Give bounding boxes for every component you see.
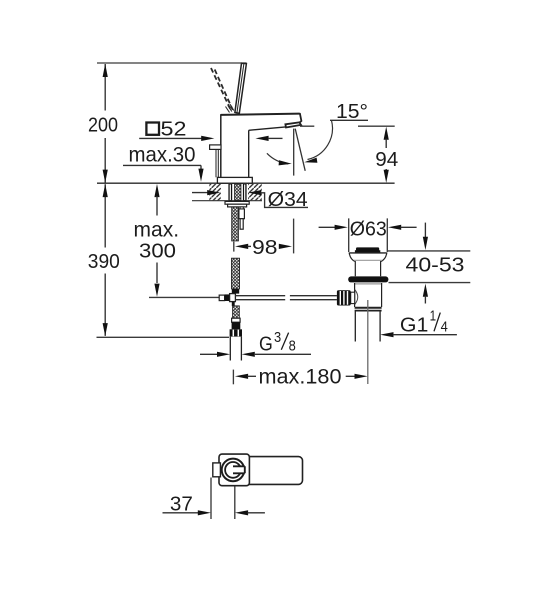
dim G1 1/4 arrow left-pointing — [380, 332, 393, 337]
label square52 symbol — [146, 123, 159, 135]
logo inner ring — [225, 462, 241, 478]
logo outer ring — [222, 459, 245, 482]
dim G1 1/4 leader — [393, 334, 457, 336]
rod clamp left piece — [219, 295, 224, 301]
pop-up plug cap — [356, 247, 379, 250]
label 15deg underline — [330, 119, 368, 121]
dim max.300 upper shaft — [156, 196, 158, 216]
dim 390 bottom extension line — [97, 336, 230, 338]
max.300 bottom extension / pop-up rod hairline — [149, 296, 219, 298]
dim 40-53 top extension — [388, 250, 471, 252]
dim max.180 line right — [346, 375, 355, 377]
dim G3/8 arrow right-pointing — [217, 352, 230, 357]
rod clamp screw block — [225, 294, 230, 301]
waste knurled knob — [337, 290, 351, 305]
15deg arc left arrowhead — [279, 160, 292, 165]
svg-text:94: 94 — [375, 148, 398, 171]
faucet body right edge — [248, 130, 250, 177]
dim 98 arrow left-pointing — [235, 244, 248, 249]
dim diam34 left tail — [192, 192, 210, 194]
washer below deck — [225, 201, 249, 204]
top reference line — [97, 62, 247, 64]
waste tailpipe — [355, 312, 380, 342]
15deg arc right arrowhead — [304, 158, 317, 163]
bottom view spout outline — [244, 457, 303, 485]
15deg arc left — [267, 153, 288, 164]
dim G3/8 right tail — [254, 353, 311, 355]
svg-text:200: 200 — [88, 113, 118, 136]
mounting bolt right — [243, 184, 247, 200]
dim diam63 right tail — [401, 226, 417, 228]
svg-text:300: 300 — [139, 239, 176, 262]
waste flange sides — [349, 253, 387, 276]
dim 98 arrow right-pointing — [279, 244, 292, 249]
svg-text:G1: G1 — [400, 313, 429, 336]
svg-text:max.180: max.180 — [259, 364, 342, 388]
water stream straight line — [293, 129, 295, 176]
dim 98 line left — [248, 245, 252, 247]
lever dashed alternative position — [211, 68, 233, 110]
pop-up rod upper piece cap — [240, 207, 243, 209]
pull-rod knob behind faucet — [210, 145, 221, 150]
dim 94 top extension segments — [300, 125, 395, 127]
pop-up rod upper piece — [239, 209, 245, 219]
tube centerline stub — [232, 370, 234, 385]
label max.30 arrow down — [198, 169, 203, 182]
svg-text:15°: 15° — [336, 100, 368, 123]
supply hose through deck — [235, 184, 241, 200]
dim 37 tail right — [248, 512, 265, 514]
bottom view body square — [219, 454, 249, 486]
spout underside — [249, 127, 286, 130]
dim 40-53 lower shaft — [424, 296, 426, 304]
svg-text:390: 390 — [88, 250, 120, 273]
dim 37 extension lines — [211, 478, 235, 520]
aerator plate — [285, 122, 301, 127]
clamp lower black nub — [232, 302, 235, 307]
deck hatch left block — [209, 184, 221, 201]
lever inner line — [237, 64, 244, 114]
dim diam34 arrow right-pointing — [207, 190, 220, 195]
faucet body top surface — [221, 114, 300, 115]
svg-text:max.30: max.30 — [129, 143, 196, 167]
dim max.300 arrow down — [154, 284, 159, 297]
deck bottom line — [192, 200, 262, 202]
dim 390 arrow up — [103, 184, 108, 197]
dim diam34 leader — [261, 193, 309, 208]
logo bar — [233, 466, 245, 473]
dim 40-53 upper shaft — [424, 223, 426, 238]
dim 200 arrow up — [103, 64, 108, 77]
countertop line — [97, 182, 395, 184]
dim 40-53 arrow down — [423, 237, 428, 250]
bottom view lever tab — [213, 463, 221, 477]
spout front edge — [300, 113, 302, 123]
dim 52 arrow left-pointing — [255, 136, 268, 141]
hose black band — [232, 322, 241, 329]
svg-text:1: 1 — [430, 308, 437, 324]
rod clamp body — [230, 294, 236, 302]
dim 52 tail right — [268, 137, 283, 139]
label max.30 underline — [123, 165, 201, 169]
waste body sides — [355, 283, 382, 307]
waste flange gray line — [354, 259, 382, 261]
dim 37 line left — [163, 512, 200, 514]
dim diam63 extension lines — [349, 218, 388, 252]
svg-text:52: 52 — [161, 118, 187, 141]
svg-text:37: 37 — [170, 492, 193, 515]
G3/8 nut — [230, 329, 242, 336]
dim max.300 arrow up — [154, 184, 159, 197]
dim 200 line — [104, 64, 106, 183]
dim 37 arrow right-pointing — [198, 510, 211, 515]
dim max.180 arrow left-pointing — [235, 374, 248, 379]
svg-text:8: 8 — [289, 339, 296, 355]
hose centerline tick at 98 dim — [233, 242, 235, 252]
dim diam34 arrow left-pointing — [248, 190, 261, 195]
dim max.180 line left — [248, 375, 257, 377]
dim G3/8 arrow left-pointing — [242, 352, 255, 357]
dim max.300 lower shaft — [156, 263, 158, 284]
pop-up rod lower piece — [240, 219, 243, 230]
supply hose middle section — [232, 258, 240, 289]
deck hatch right block — [248, 184, 262, 201]
dim 94 shaft — [385, 139, 387, 171]
waste ball housing curve — [355, 290, 358, 305]
hose collar ring — [232, 318, 241, 322]
waste knob connector — [351, 292, 355, 303]
svg-text:Ø34: Ø34 — [268, 188, 308, 211]
svg-text:3: 3 — [274, 330, 281, 346]
dim 52 leader left — [139, 137, 202, 139]
svg-text:4: 4 — [441, 320, 448, 336]
dim 390 arrow down — [103, 323, 108, 336]
dim 40-53 arrow up — [423, 284, 428, 297]
dim 390 line — [104, 184, 106, 336]
base plate — [217, 177, 252, 183]
dim 200 arrow down — [103, 170, 108, 183]
dim 94 arrow down — [384, 170, 389, 183]
waste joint double line — [355, 307, 382, 309]
dim max.180 arrow right-pointing — [355, 374, 368, 379]
waste gray line under seal — [354, 283, 382, 285]
faucet body left edge — [220, 114, 222, 177]
svg-text:98: 98 — [252, 236, 278, 259]
dim 94 arrow up — [384, 127, 389, 140]
dim diam63 left tail — [319, 226, 335, 228]
15deg arc right — [308, 121, 333, 160]
connection tube — [230, 337, 241, 361]
dim 37 arrow left-pointing — [235, 510, 248, 515]
svg-text:G: G — [259, 332, 273, 355]
hose end fitting black band — [232, 289, 239, 294]
water stream tilted line — [295, 129, 305, 171]
dim diam63 arrow right-pointing — [335, 225, 348, 230]
dim 98 extension line — [293, 219, 295, 254]
supply hose below deck — [232, 207, 239, 241]
pop-up horizontal rod outline — [235, 296, 337, 300]
supply hose lower section — [233, 306, 240, 318]
svg-text:Ø63: Ø63 — [350, 217, 387, 240]
waste centerline — [367, 300, 369, 384]
lever solid — [235, 63, 247, 113]
dim 40-53 bottom extension — [389, 282, 471, 284]
dim G3/8 left tail — [200, 353, 218, 355]
dim 52 arrow right-pointing — [201, 136, 214, 141]
dim diam63 arrow left-pointing — [388, 225, 401, 230]
mounting nut — [228, 204, 247, 207]
waste seal ring — [348, 276, 388, 282]
svg-text:max.: max. — [134, 218, 180, 242]
waste flange top — [349, 252, 387, 254]
lever dashed fan ticks — [226, 104, 234, 112]
pull-rod stem — [216, 149, 218, 177]
mounting bolt left — [228, 184, 232, 200]
svg-text:40-53: 40-53 — [406, 254, 465, 277]
